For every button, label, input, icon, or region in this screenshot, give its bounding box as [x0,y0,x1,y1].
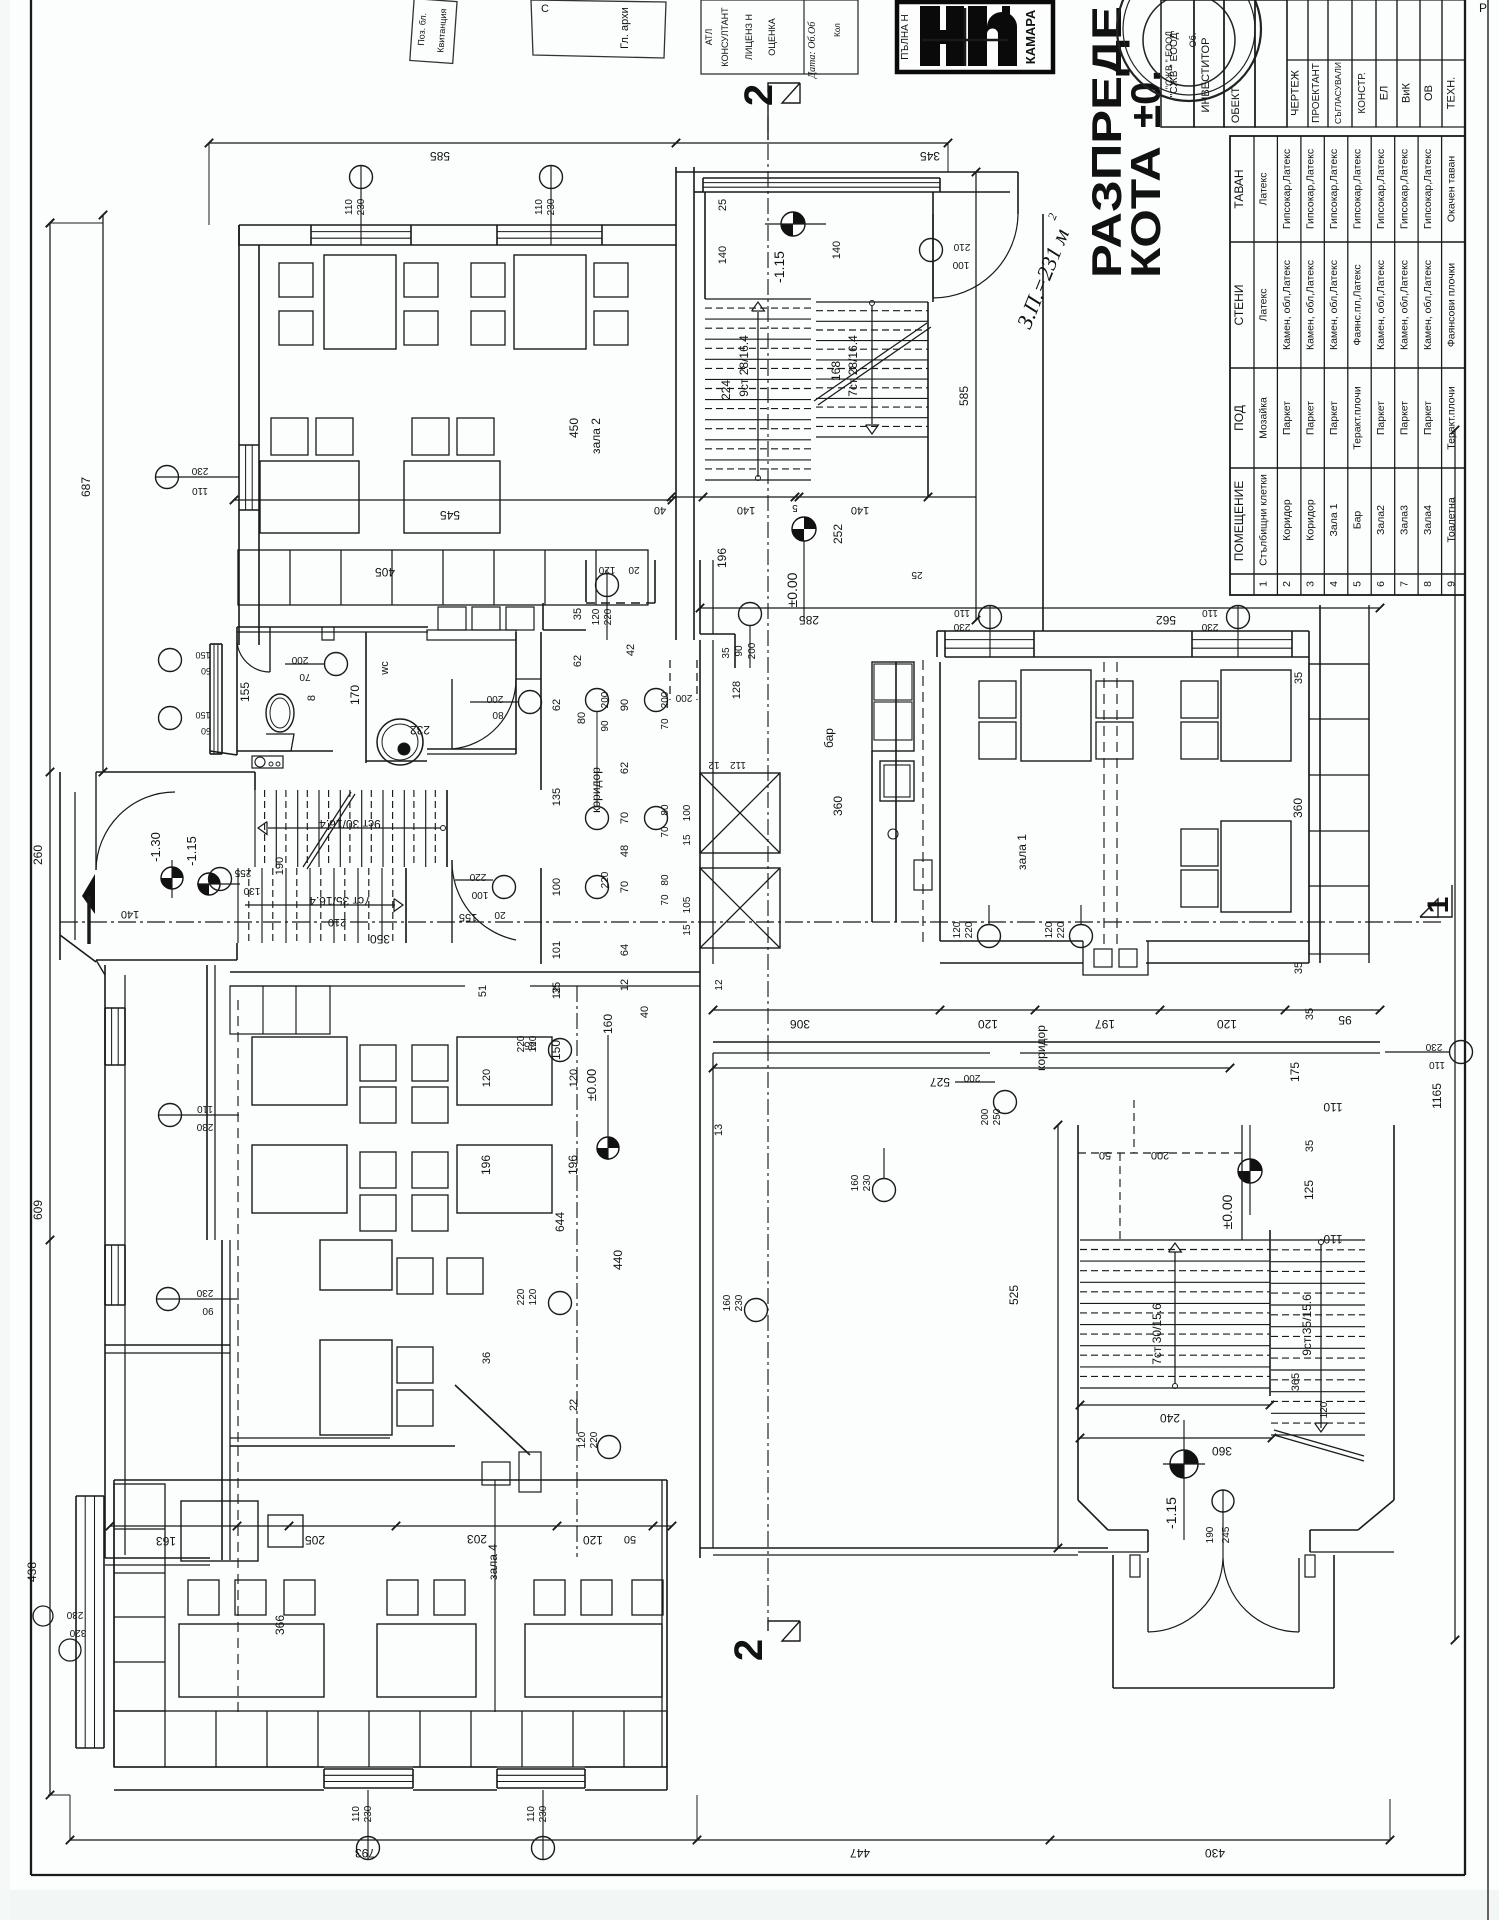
middle stairs flight 9ст 30/16.4 [255,790,447,875]
svg-text:200: 200 [980,1108,991,1125]
svg-text:220: 220 [516,1288,527,1305]
axis circle 160/230 mid lower [850,1148,896,1202]
svg-text:Зала 1: Зала 1 [1328,503,1340,536]
bar area: counter [822,662,932,922]
svg-text:50: 50 [624,1533,636,1545]
svg-text:200: 200 [660,691,671,708]
left exterior wall at wc with window 150/50 labels [159,644,223,754]
svg-text:35: 35 [1304,1140,1316,1152]
svg-text:ПРОЕКТАНТ: ПРОЕКТАНТ [1311,63,1322,123]
svg-text:545: 545 [440,508,460,522]
stair flight down 7ст 28/16.4 (treads) [816,301,928,438]
svg-text:"СЖВ " ЕООД: "СЖВ " ЕООД [1169,32,1180,97]
svg-text:230: 230 [734,1294,745,1311]
svg-text:95: 95 [1338,1013,1352,1027]
porch walls [1113,1555,1334,1688]
level markers -1.30 / -1.15 at left landing [148,832,240,898]
svg-text:128: 128 [731,681,743,699]
svg-text:140: 140 [851,504,869,516]
svg-text:70: 70 [660,718,671,730]
axis circles in corridor (x595..) [586,689,672,906]
bottom dimension chain 793/447/430 [48,1795,1394,1860]
svg-text:110: 110 [344,199,355,215]
svg-text:8: 8 [1422,581,1434,587]
svg-text:230: 230 [1425,1041,1442,1052]
svg-text:62: 62 [572,655,584,667]
corridor below zala1: bottom wall [713,1025,1380,1071]
svg-text:Гипсокар,Латекс: Гипсокар,Латекс [1422,149,1434,229]
svg-text:230: 230 [191,465,208,476]
left wing partitions [105,965,230,1565]
zala1 dashed partitions [923,660,1117,945]
svg-text:wc: wc [379,661,391,676]
svg-text:200: 200 [675,692,692,703]
stamp: black chamber stamp (ПЪЛНА/КАМАРА logo) [897,2,1053,72]
svg-text:405: 405 [375,565,395,579]
svg-text:110: 110 [1429,1059,1445,1070]
svg-text:Коридор: Коридор [1305,499,1317,541]
svg-text:ТЕХН.: ТЕХН. [1446,77,1458,109]
stair break diagonal [814,323,931,405]
dimension 545 inside zala2 [230,496,676,522]
svg-text:687: 687 [79,477,93,497]
svg-text:С: С [541,3,549,15]
entrance axis circle 190/245 [1205,1490,1234,1543]
svg-text:13: 13 [713,1124,725,1136]
svg-text:ЛИЦЕНЗ Н: ЛИЦЕНЗ Н [744,14,754,60]
svg-text:9ст 35/15.6: 9ст 35/15.6 [1300,1294,1314,1356]
svg-text:7ст 28/16.4: 7ст 28/16.4 [846,335,860,397]
axis circle 110/230 left wing [157,1103,240,1316]
svg-text:КОНСТР.: КОНСТР. [1357,72,1368,113]
svg-text:230: 230 [538,1805,549,1822]
stamp: chief architect box (Гл. архитект) [531,0,666,58]
dimension line top (585 / 345) [205,139,952,225]
external stair divider wall [1269,1230,1271,1396]
svg-text:155: 155 [238,682,252,702]
labels 196 / 252 / 285 / ±0.00 below stairwell [715,517,923,627]
svg-text:110: 110 [1323,1232,1342,1246]
zala1 bottom wall with door [940,662,1309,975]
svg-text:Гипсокар,Латекс: Гипсокар,Латекс [1328,149,1340,229]
svg-text:220: 220 [469,871,486,882]
labels 155 / 8 / 170 / wc [238,661,391,705]
svg-text:120: 120 [577,1431,588,1448]
svg-text:Латекс: Латекс [1258,173,1270,206]
svg-text:585: 585 [957,386,971,406]
svg-text:ПОМЕЩЕНИЕ: ПОМЕЩЕНИЕ [1232,481,1246,562]
axis circles below zala1 bottom wall (120/220) [952,905,1093,948]
stairwell bottom dim chain 40/140/5/140 [654,493,976,516]
svg-text:Паркет: Паркет [1281,401,1293,435]
svg-text:1: 1 [1422,897,1455,914]
svg-text:15: 15 [682,834,693,846]
svg-text:160: 160 [850,1174,861,1191]
svg-text:306: 306 [790,1017,810,1031]
svg-text:5: 5 [792,502,798,513]
svg-text:коридор: коридор [1034,1025,1048,1071]
svg-text:230: 230 [953,621,970,632]
drawing title text РАЗПРЕДЕ / КОТА 0. [1083,6,1169,278]
svg-text:525: 525 [1007,1285,1021,1305]
zala4 left counter cells [114,1484,165,1711]
wash basin (sink) below toilet room [252,756,283,768]
svg-text:252: 252 [831,524,845,544]
title block: company / investor / object boxes [1161,0,1287,127]
svg-text:2: 2 [1281,581,1293,587]
zala4 furniture 3 groups [179,1580,663,1697]
svg-text:Фаянс.пл,Латекс: Фаянс.пл,Латекс [1352,264,1364,345]
svg-text:110: 110 [351,1806,362,1822]
door of stairwell (right) with arc [920,214,1019,298]
svg-text:220: 220 [603,608,614,625]
svg-text:210: 210 [953,241,970,252]
svg-text:Паркет: Паркет [1398,401,1410,435]
dim 527 and 13 below corridor [549,987,1234,1136]
corridor dim chain (62/42/90/80/62/135/70/48/70/64/101) [551,608,651,1018]
dims 25/140/140 stairwell [717,199,843,264]
toilet room door arc [237,627,270,672]
svg-text:20: 20 [628,564,640,575]
toilet symbol [266,694,294,751]
dimension line left 687 [46,211,107,776]
zala1 furniture group C [1181,821,1291,912]
axis circle 160/230 left of corridor [722,1294,768,1321]
svg-text:-1.15: -1.15 [771,251,787,283]
svg-text:7: 7 [1398,581,1410,587]
svg-text:100: 100 [551,878,563,896]
svg-text:±0.00: ±0.00 [1219,1194,1235,1229]
wc room: bidet/sink circle 232 [377,719,430,765]
section marker 2 (bottom) [727,1590,800,1661]
svg-text:200: 200 [291,654,308,665]
svg-text:168: 168 [829,361,843,381]
external stair flight 9ст 35/15.6 [1271,1240,1365,1436]
svg-text:Паркет: Паркет [1328,401,1340,435]
svg-text:51: 51 [477,985,489,997]
svg-text:110: 110 [192,485,208,496]
svg-text:ОБЕКТ: ОБЕКТ [1230,87,1242,124]
zala3/wing divider walls x700 down [700,964,1108,1558]
svg-text:203: 203 [467,1532,487,1546]
svg-text:793: 793 [355,1846,375,1860]
svg-text:48: 48 [619,845,631,857]
dim 562 above zala1 [696,604,1384,627]
svg-text:200: 200 [600,691,611,708]
zala2 service counter row (405) [238,550,648,605]
svg-text:110: 110 [954,607,970,618]
svg-text:175: 175 [1288,1062,1302,1082]
svg-text:ПЪЛНА Н: ПЪЛНА Н [900,14,911,60]
svg-text:Фаянсови плочки: Фаянсови плочки [1445,263,1457,347]
zala4 bottom wall with windows [114,1767,667,1790]
svg-text:64: 64 [619,944,631,956]
svg-text:ОЦЕНКА: ОЦЕНКА [767,18,777,55]
svg-text:КАМАРА: КАМАРА [1023,9,1038,64]
svg-text:196: 196 [479,1155,493,1175]
svg-text:438: 438 [25,1562,39,1582]
zala1 furniture group B [1181,670,1291,761]
svg-text:120: 120 [1044,921,1055,938]
svg-text:Гипсокар,Латекс: Гипсокар,Латекс [1281,149,1293,229]
svg-text:230: 230 [196,1287,213,1298]
svg-text:360: 360 [1212,1444,1232,1458]
svg-text:3: 3 [1305,581,1317,587]
svg-text:440: 440 [611,1250,625,1270]
svg-text:12: 12 [714,979,725,991]
svg-text:224: 224 [719,380,733,400]
svg-text:105: 105 [682,896,693,913]
±0.00 marker lower right wing [1099,1125,1262,1229]
svg-text:350: 350 [370,932,390,946]
svg-text:196: 196 [566,1155,580,1175]
svg-text:90: 90 [619,699,631,711]
svg-text:170: 170 [348,685,362,705]
svg-text:7ст 35/16.4: 7ст 35/16.4 [309,894,371,908]
svg-text:9ст 28/16.4: 9ст 28/16.4 [737,335,751,397]
svg-text:50: 50 [201,726,211,736]
svg-text:220: 220 [1056,921,1067,938]
svg-text:40: 40 [639,1006,651,1018]
svg-text:Бар: Бар [1352,511,1364,530]
corridor dim chain 306/120/197/120/95 [709,1006,1384,1031]
svg-text:90: 90 [600,720,611,732]
svg-text:110: 110 [534,199,545,215]
svg-text:7ст 30/15.6: 7ст 30/15.6 [1150,1303,1164,1365]
svg-text:120: 120 [528,1035,539,1052]
svg-text:585: 585 [430,149,450,163]
axis circles in zala3 (220/120) [516,1035,621,1459]
svg-text:101: 101 [551,941,563,959]
svg-text:6: 6 [1375,581,1387,587]
svg-text:70: 70 [660,894,671,906]
svg-text:130: 130 [243,885,260,896]
svg-text:Окачен таван: Окачен таван [1445,156,1457,222]
svg-text:255: 255 [234,867,251,878]
zala3 furniture (2x2 groups) [252,1037,552,1231]
right side dim chain 175/110/35/125/110 [1288,1008,1343,1246]
svg-text:Кол: Кол [833,23,842,37]
svg-text:190: 190 [1205,1526,1216,1543]
svg-text:70: 70 [619,812,631,824]
svg-text:140: 140 [831,241,843,259]
svg-text:-1.15: -1.15 [184,836,199,866]
stairwell: walls [705,172,1043,631]
svg-text:450: 450 [567,418,581,438]
svg-text:Камен, обл,Латекс: Камен, обл,Латекс [1328,260,1340,350]
svg-text:4: 4 [1328,581,1340,587]
svg-text:197: 197 [1095,1017,1115,1031]
zala4 dashed section line [237,1446,239,1712]
svg-text:25: 25 [717,199,729,211]
svg-text:СЪГЛАСУВАЛИ: СЪГЛАСУВАЛИ [1333,62,1343,124]
corridor vertical walls x540 / x700 [516,632,713,964]
svg-text:2: 2 [737,84,781,106]
svg-text:Гипсокар,Латекс: Гипсокар,Латекс [1305,149,1317,229]
svg-text:1: 1 [1258,581,1270,587]
middle stairs flight 7ст 35/16.4 [238,868,406,943]
level marker -1.15 (stairwell) [765,212,826,283]
svg-text:Стълбищни клетки: Стълбищни клетки [1258,474,1270,566]
svg-text:Теракт.плочи: Теракт.плочи [1352,386,1364,450]
svg-text:220: 220 [964,921,975,938]
svg-text:Камен, обл,Латекс: Камен, обл,Латекс [1305,260,1317,350]
svg-text:2: 2 [727,1639,771,1661]
svg-text:320: 320 [69,1627,86,1638]
door arc lower-right of stairs [452,860,516,943]
svg-text:230: 230 [196,1121,213,1132]
stamp: consultant license box (АТЛ КОНСУЛТ/ЛИЦЕНЗ/ОЦЕНКА/Дата) [701,0,858,79]
svg-text:200: 200 [963,1072,980,1083]
wc block: top wall [237,627,516,640]
svg-text:230: 230 [1201,621,1218,632]
svg-text:35: 35 [721,647,732,659]
svg-text:35: 35 [572,608,584,620]
zala3 chamfer wall bottom-right [230,1385,530,1455]
svg-text:Мозайка: Мозайка [1258,397,1270,439]
svg-text:205: 205 [305,1533,325,1547]
svg-text:Камен, обл,Латекс: Камен, обл,Латекс [1375,260,1387,350]
svg-text:зала 4: зала 4 [486,1544,500,1580]
zala4 left exterior window band 230/320 [59,1496,287,1748]
svg-text:40: 40 [654,504,666,516]
svg-text:КОНСУЛТАНТ: КОНСУЛТАНТ [720,7,730,67]
svg-text:90: 90 [202,1305,214,1316]
svg-text:20: 20 [494,909,506,920]
svg-text:90: 90 [734,645,745,657]
furniture zala2 row1: chairs+tables [279,255,628,349]
svg-text:360: 360 [831,796,845,816]
svg-text:9ст 30/16.4: 9ст 30/16.4 [319,817,381,831]
svg-text:200: 200 [1151,1149,1169,1161]
small squares below counter [438,607,534,630]
svg-text:35: 35 [1293,672,1305,684]
svg-text:120: 120 [598,564,615,575]
svg-text:527: 527 [930,1075,950,1089]
svg-text:АТЛ: АТЛ [704,29,714,46]
svg-text:150: 150 [195,710,210,720]
svg-text:230: 230 [66,1609,83,1620]
svg-text:бар: бар [822,728,836,748]
svg-text:Зала2: Зала2 [1375,505,1387,535]
wc block: toilet room walls [210,627,366,763]
center line 1-1 horizontal [60,921,1445,923]
external stair break diagonal [1274,1430,1364,1461]
svg-text:ИНВЕСТИТОР: ИНВЕСТИТОР [1200,38,1212,113]
zala3: top wall [230,932,700,1051]
svg-text:366: 366 [273,1615,287,1635]
svg-text:110: 110 [197,1103,213,1114]
axis circle right margin 230/110 and dim 1165 [1385,426,1473,1644]
stamp: small permit box (Поз.бл/Квитанция) [410,0,457,63]
svg-text:163: 163 [156,1534,176,1548]
entrance level marker -1.15 [1163,1420,1205,1540]
svg-text:±0.00: ±0.00 [784,572,800,607]
svg-text:ЧЕРТЕЖ: ЧЕРТЕЖ [1290,70,1302,116]
stair flight up 9ст 28/16.4 (treads) [705,299,811,481]
svg-text:365: 365 [1290,1373,1302,1391]
left entrance door with arc [82,772,175,944]
svg-text:12: 12 [619,979,631,991]
svg-text:285: 285 [799,613,819,627]
svg-text:135: 135 [551,788,563,806]
middle stairs break diagonal [303,792,355,869]
zala1: top wall with windows and axis circles [937,606,1309,658]
title block: signature rows (ЧЕРТЕЖ..ТЕХН.) [1287,0,1487,127]
svg-text:196: 196 [715,548,729,568]
svg-text:-1.15: -1.15 [1163,1497,1179,1529]
section marker 2 (top) [737,83,800,140]
svg-text:50: 50 [201,666,211,676]
svg-text:Камен, обл,Латекс: Камен, обл,Латекс [1281,260,1293,350]
svg-text:160: 160 [601,1014,615,1034]
svg-text:Дата: Об.Об: Дата: Об.Об [807,21,818,80]
zala1 right wall band [1291,605,1369,974]
zala4 bottom counter band [114,1711,667,1767]
svg-text:100: 100 [952,259,969,270]
svg-text:447: 447 [850,1846,870,1860]
double crossed boxes (shafts) right of corridor [682,681,780,991]
wc block bottom walls [366,632,516,761]
landing walls around middle stairs [96,772,447,960]
svg-text:70: 70 [299,671,311,682]
stairwell: top wall with window [676,167,940,192]
entrance double door arcs [1148,1490,1299,1632]
svg-text:62: 62 [551,699,563,711]
svg-text:120: 120 [978,1017,998,1031]
svg-text:120: 120 [568,1069,580,1087]
handwritten area note З.П.=231 m2 [1011,211,1074,332]
svg-text:100: 100 [682,804,693,821]
svg-text:230: 230 [862,1174,873,1191]
svg-text:120: 120 [583,1533,603,1547]
svg-text:ЕЛ: ЕЛ [1379,86,1391,101]
room finish table (9 rows) [1230,136,1465,595]
svg-text:ПОД: ПОД [1232,405,1246,431]
svg-text:Паркет: Паркет [1375,401,1387,435]
svg-text:42: 42 [625,644,637,656]
svg-text:зала 1: зала 1 [1015,834,1029,870]
entrance block: outer walls with chamfers [1078,1125,1394,1552]
svg-text:Гипсокар,Латекс: Гипсокар,Латекс [1375,149,1387,229]
svg-text:250: 250 [992,1108,1003,1125]
svg-text:Зала4: Зала4 [1422,505,1434,535]
svg-text:232: 232 [410,723,430,737]
svg-text:140: 140 [737,504,755,516]
svg-text:СТЕНИ: СТЕНИ [1232,285,1246,326]
room zala 2: exterior walls [239,167,694,645]
svg-text:609: 609 [31,1200,45,1220]
svg-text:62: 62 [619,762,631,774]
svg-text:Гл. архи: Гл. архи [619,7,631,49]
svg-text:ОВ: ОВ [1423,85,1435,101]
svg-text:644: 644 [553,1212,567,1232]
round company stamp (double circle) [1117,0,1261,101]
svg-text:245: 245 [1221,1526,1232,1543]
svg-text:12: 12 [551,987,563,999]
svg-text:430: 430 [1205,1846,1225,1860]
svg-text:150: 150 [195,650,210,660]
corridor top entry walls and door [543,560,762,703]
svg-text:Коридор: Коридор [1281,499,1293,541]
svg-text:562: 562 [1156,613,1176,627]
furniture zala2 row2 [260,418,500,533]
zala4: outer walls [114,1480,667,1790]
svg-text:25: 25 [911,569,923,580]
svg-text:36: 36 [481,1352,493,1364]
door in corridor bottom wall (200 circle) [955,1072,1017,1125]
svg-text:Гипсокар,Латекс: Гипсокар,Латекс [1352,149,1364,229]
